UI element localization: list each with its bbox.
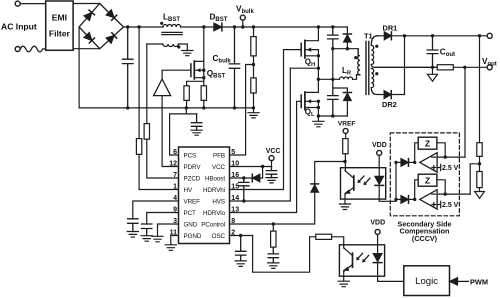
node cell1 out <box>444 155 447 158</box>
ground VREF cap <box>127 232 138 238</box>
driver amp triangle for QBST <box>154 79 171 96</box>
node comp left cell1 <box>394 161 397 164</box>
wire pin3 GND <box>158 224 179 236</box>
ground opto1 emitter <box>339 204 350 210</box>
primary phasing dot <box>354 56 357 59</box>
node filter cap to return rail <box>126 106 129 109</box>
svg-text:PFB: PFB <box>213 152 225 159</box>
wire LR to primary bottom <box>353 75 361 80</box>
wire HV line down <box>138 27 140 139</box>
capacitor PCS filter <box>191 114 201 130</box>
svg-text:PCT: PCT <box>184 210 197 217</box>
wire EMI filter to bridge bottom vertex <box>73 48 100 50</box>
wire QL source tie <box>317 101 319 116</box>
svg-text:10: 10 <box>231 160 239 167</box>
svg-text:PZCD: PZCD <box>184 175 201 182</box>
plus marker cell1 <box>432 166 436 170</box>
resistor sense left <box>184 86 189 101</box>
resistor opto2 collector <box>316 234 332 239</box>
opto1 LED <box>375 176 384 184</box>
wire PCS sense loop <box>170 108 197 155</box>
node cell1 ref input <box>413 161 416 164</box>
ground PControl filter <box>268 263 279 269</box>
svg-text:11: 11 <box>170 229 178 236</box>
diode bootstrap (VCC to HBoost) <box>253 174 260 182</box>
svg-text:VCC: VCC <box>212 164 226 171</box>
wire output divider <box>479 36 481 143</box>
resistor sense right <box>201 86 206 101</box>
wire diode up to opto collector node <box>315 162 345 184</box>
optocoupler 1 box <box>341 168 386 199</box>
wire cell1 to Vout return riser <box>464 67 466 157</box>
svg-text:16: 16 <box>231 172 239 179</box>
transformer secondary top winding <box>371 36 377 65</box>
impedance Z cell1 <box>415 143 419 163</box>
svg-text:PControl: PControl <box>201 221 225 228</box>
svg-text:PDRV: PDRV <box>184 164 202 171</box>
wire divider bottom to rail <box>253 93 255 108</box>
wire snubber mid tie to switch node <box>332 49 334 80</box>
wire VDD to opto2 LED <box>377 234 379 253</box>
resistor VREF to opto1 <box>343 139 348 154</box>
node Cbulk bottom <box>233 106 236 109</box>
wire VDD to opto1 LED <box>378 155 380 176</box>
svg-text:12: 12 <box>169 160 177 167</box>
wire pin4 VREF to cap <box>133 201 179 219</box>
node Cbulk top <box>233 25 236 28</box>
svg-text:14: 14 <box>231 195 239 202</box>
opto2 phototransistor <box>352 253 354 267</box>
ground aux winding <box>182 51 193 56</box>
svg-text:15: 15 <box>231 183 239 190</box>
diode comp cell2 <box>396 198 401 200</box>
Logic box <box>404 266 450 296</box>
op-amp cell1 (shunt regulator) <box>420 153 437 172</box>
EMI Filter box <box>46 1 73 50</box>
LBST aux winding <box>163 44 179 47</box>
resistor output divider upper <box>477 143 482 157</box>
node comp left cell2 <box>394 198 397 201</box>
capacitor Cout <box>427 36 438 68</box>
wire amp output to QBST gate <box>162 70 191 79</box>
node OSC <box>239 234 242 237</box>
wire divider middle <box>253 56 255 78</box>
wire resistor to opto1 collector <box>344 154 346 171</box>
wire cell1 feedback node line <box>437 156 465 158</box>
svg-text:VDD: VDD <box>370 220 385 227</box>
wire center tap to output return <box>371 65 437 68</box>
svg-text:DR1: DR1 <box>383 24 398 33</box>
svg-text:DR2: DR2 <box>382 100 397 109</box>
diode DR1 <box>384 32 391 40</box>
terminal VDD opto1 <box>377 150 382 155</box>
svg-text:6: 6 <box>173 149 177 156</box>
diode QH body <box>346 27 348 34</box>
opto2 light arrows <box>357 253 369 261</box>
svg-text:HDRVhi: HDRVhi <box>203 187 225 194</box>
ground at return rail right end <box>248 108 259 118</box>
node opto1 collector <box>343 160 346 163</box>
diode comp cell1 <box>396 161 401 163</box>
capacitor OSC <box>236 236 246 261</box>
svg-text:PWM: PWM <box>470 277 488 286</box>
svg-text:VREF: VREF <box>184 198 201 205</box>
wire pin13 HDRVlo to QL gate <box>230 101 302 212</box>
node DR2 riser at plus rail <box>403 34 406 37</box>
bridge diode D-bottomleft <box>84 33 94 43</box>
wire QBST drain riser <box>203 27 205 61</box>
opto2 LED <box>373 254 382 262</box>
wire QBST source to sense resistors <box>187 78 204 86</box>
diode PControl to opto <box>311 185 319 192</box>
transformer T1 primary winding <box>357 49 361 75</box>
transistor QL <box>305 79 319 92</box>
wire DBST to half bridge <box>223 26 348 28</box>
wire bootstrap diode to pin16 <box>230 177 253 179</box>
svg-text:4: 4 <box>173 195 177 202</box>
wire pin14 HVS <box>230 68 291 201</box>
svg-text:HVS: HVS <box>212 198 225 205</box>
capacitor PCT <box>142 224 152 236</box>
svg-text:VDD: VDD <box>372 142 387 149</box>
terminal VDD opto2 <box>375 229 380 234</box>
wire EMI filter to bridge top vertex <box>73 3 100 5</box>
wire amp input down to pin12 PDRV <box>162 96 178 167</box>
wire cell2 feedback node line <box>437 193 470 195</box>
node pin8 RC <box>272 222 275 225</box>
2.5V ref tick cell2 <box>437 201 441 207</box>
svg-text:VCC: VCC <box>266 148 281 155</box>
node QH snubber cap top <box>331 25 334 28</box>
node sense left at rail <box>185 106 188 109</box>
inductor LR <box>339 77 352 79</box>
node pin16 HBoost <box>242 176 245 179</box>
node bulk rail at filter cap <box>126 25 129 28</box>
ground PCT cap <box>141 236 152 242</box>
node cell2 out <box>444 192 447 195</box>
node return rail ground <box>252 106 255 109</box>
wire DC minus: bridge left vertex down to return rail <box>78 27 80 108</box>
wire opto1 LED cathode to comp rail <box>379 185 396 201</box>
wire VREF to resistor <box>345 133 347 138</box>
2.5V ref tick cell1 <box>437 164 441 170</box>
inductor LBST main winding <box>163 25 181 28</box>
svg-text:5: 5 <box>231 149 235 156</box>
wire HV resistor to pin1 <box>139 154 178 189</box>
svg-text:Z: Z <box>425 139 430 149</box>
wire Vbulk terminal <box>242 20 244 27</box>
wire pin11 PGND <box>171 236 179 245</box>
terminal VCC <box>269 156 274 161</box>
plus marker cell2 <box>432 203 436 207</box>
ground pin3 <box>152 236 163 242</box>
ground QL source <box>313 116 324 127</box>
node QBST drain at rail <box>202 25 205 28</box>
wire output return right <box>453 66 487 68</box>
svg-text:2: 2 <box>231 229 235 236</box>
bridge diode D-topright <box>106 10 116 20</box>
node Cout top <box>431 34 434 37</box>
svg-text:EMI: EMI <box>52 13 67 23</box>
wire AC top to EMI filter <box>20 3 46 5</box>
node QH source <box>317 54 320 57</box>
node cell2 ref input <box>413 198 416 201</box>
wire aux right to ground <box>178 44 187 51</box>
ground pin11 <box>165 245 176 251</box>
AC input terminal bottom <box>15 47 20 52</box>
resistor divider lower <box>251 78 256 93</box>
capacitor VCC decoupling <box>266 167 276 178</box>
aux winding phasing dot <box>177 45 180 48</box>
wire return rail <box>79 107 253 109</box>
minus marker cell2 <box>432 193 436 195</box>
node divider top <box>252 25 255 28</box>
wire divider tap to comp cell2 <box>470 164 479 194</box>
wire QH snubber bottom to primary top <box>333 49 358 56</box>
transformer T1 core <box>366 42 369 95</box>
node VCC branch <box>261 165 264 168</box>
ground PCS filter <box>191 130 202 135</box>
transistor QH <box>305 27 319 41</box>
resistor output divider lower <box>477 172 482 188</box>
svg-text:(CCCV): (CCCV) <box>412 234 438 243</box>
wire resistor to opto2 collector <box>332 237 344 248</box>
wire QL bottom line <box>318 115 347 117</box>
ground opto2 emitter <box>338 281 349 287</box>
wire DR2 up to plus rail <box>392 36 405 95</box>
capacitor QH snubber <box>328 27 338 49</box>
node QH drain at rail <box>317 25 320 28</box>
wire bulk rail LBST to DBST <box>181 26 214 28</box>
wire AC bottom squiggle to EMI filter <box>20 46 46 52</box>
ground VCC cap <box>266 178 277 183</box>
node output divider tap <box>478 162 481 165</box>
node QBST source <box>202 69 205 72</box>
ground OSC cap <box>235 261 246 267</box>
wire comp left drop <box>395 162 397 201</box>
node output divider top <box>478 34 481 37</box>
wire pin9 PCT to cap <box>147 213 179 225</box>
node switch <box>317 78 320 81</box>
LBST phasing dot <box>160 22 163 25</box>
svg-text:HBoost: HBoost <box>205 175 225 182</box>
capacitor bootstrap <box>239 178 249 201</box>
wire switch node to LR <box>318 78 339 80</box>
capacitor PControl filter <box>268 247 278 263</box>
wire divider tap to PFB riser <box>230 65 254 156</box>
LBST core lines <box>162 32 182 34</box>
opto1 light arrows <box>358 176 370 184</box>
node sense right at rail <box>202 106 205 109</box>
optocoupler 2 box <box>339 245 384 276</box>
op-amp cell2 (shunt regulator) <box>420 190 437 209</box>
node divider tap <box>252 63 255 66</box>
bridge diode D-topleft <box>84 10 94 20</box>
terminal Vbulk <box>240 15 245 20</box>
svg-text:2.5 V: 2.5 V <box>442 202 459 209</box>
wire aux winding left to PZCD drop <box>147 43 163 45</box>
dashed box secondary side compensation <box>390 133 459 216</box>
svg-text:OSC: OSC <box>212 233 226 240</box>
node Vbulk <box>241 25 244 28</box>
svg-text:Logic: Logic <box>415 276 438 287</box>
wire VCC to bootstrap diode <box>260 167 263 179</box>
node Cout bottom <box>431 66 434 69</box>
diode QL body <box>333 88 348 92</box>
wire DC plus rail: bridge right vertex to half-bridge <box>124 26 164 28</box>
terminal Vout plus <box>487 33 492 38</box>
secondary top phasing dot <box>375 45 378 48</box>
resistor PControl filter <box>272 224 274 231</box>
svg-text:HV: HV <box>184 187 193 194</box>
svg-text:Z: Z <box>425 176 430 186</box>
impedance Z cell2 <box>415 180 419 200</box>
svg-text:13: 13 <box>231 206 239 213</box>
wire Vout plus rail <box>392 35 487 37</box>
minus marker cell1 <box>432 156 436 158</box>
AC input terminal top <box>15 1 20 6</box>
svg-text:PCS: PCS <box>184 152 197 159</box>
resistor divider upper <box>251 37 256 56</box>
terminal Vout minus <box>487 65 492 70</box>
svg-text:PGND: PGND <box>184 233 202 240</box>
svg-text:7: 7 <box>173 172 177 179</box>
transistor QBST <box>190 64 192 77</box>
svg-text:2.5 V: 2.5 V <box>442 165 459 172</box>
wire sense resistors to return rail <box>187 100 204 108</box>
svg-text:9: 9 <box>173 206 177 213</box>
svg-text:T1: T1 <box>364 31 373 40</box>
opto1 phototransistor <box>353 176 355 190</box>
node HV line at bulk rail <box>137 25 140 28</box>
resistor on HV line <box>136 139 141 155</box>
wire QH source tie down to switch node <box>317 50 319 80</box>
wire HVS tap <box>290 67 318 69</box>
wire Vbulk divider top <box>253 27 255 37</box>
wire pin2 OSC <box>230 235 253 237</box>
secondary bottom phasing dot <box>375 72 378 75</box>
svg-text:HDRVlo: HDRVlo <box>203 210 226 217</box>
svg-text:Filter: Filter <box>49 29 71 39</box>
node HVS tap <box>317 67 320 70</box>
diode DR2 <box>384 91 391 99</box>
node comp riser at return <box>463 66 466 69</box>
svg-text:VREF: VREF <box>338 120 356 127</box>
wire pin10 VCC <box>230 166 272 168</box>
svg-text:GND: GND <box>184 221 198 228</box>
svg-text:8: 8 <box>231 218 235 225</box>
wire pin8 PControl <box>230 193 315 224</box>
capacitor QL snubber <box>328 79 338 116</box>
wire pin15 HDRVhi to QH gate <box>230 50 302 190</box>
resistor in output return <box>437 65 453 70</box>
capacitor Cbulk <box>229 27 239 108</box>
svg-text:1: 1 <box>173 183 177 190</box>
wire OSC route to opto2 resistor <box>253 236 316 273</box>
ground Cout (open triangle) <box>428 67 438 81</box>
bridge rectifier diamond <box>79 4 123 49</box>
svg-text:3: 3 <box>173 218 177 225</box>
wire QBST body tie <box>203 61 205 77</box>
bridge diode D-bottomright <box>106 33 116 43</box>
capacitor VREF <box>128 219 138 232</box>
svg-text:AC Input: AC Input <box>1 22 37 32</box>
resistor on PZCD line <box>144 124 149 140</box>
ground output divider (open triangle) <box>475 188 485 199</box>
diode DBST <box>214 23 222 31</box>
node bootstrap cap to HVS <box>242 199 245 202</box>
wire opto2 LED cathode to Logic <box>378 263 404 282</box>
wire PZCD drop <box>146 44 148 124</box>
PWM arrow into Logic <box>450 278 458 285</box>
transformer secondary bottom winding <box>371 68 384 94</box>
wire secondary top to DR1 <box>378 35 385 37</box>
wire PZCD resistor to pin7 <box>147 139 179 178</box>
IC controller box <box>179 147 230 244</box>
capacitor after bridge <box>122 27 133 108</box>
terminal VREF <box>343 128 348 133</box>
